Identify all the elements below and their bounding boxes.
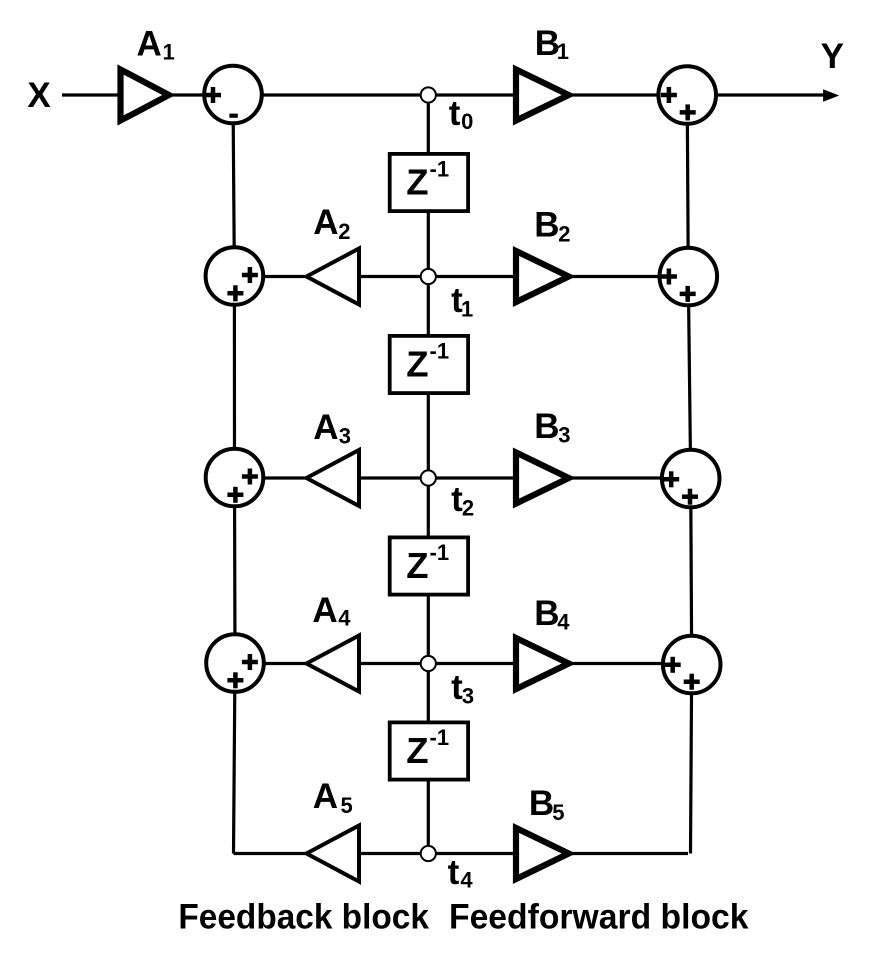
label A5 [313,777,353,818]
svg-text:0: 0 [461,109,473,134]
svg-text:B: B [529,784,554,823]
svg-text:Feedback block: Feedback block [178,897,429,937]
label B1 [535,24,569,64]
summing junction S7 [662,450,720,508]
summing junction S8 [663,636,721,694]
label A2 [313,203,350,244]
svg-text:3: 3 [462,684,474,709]
svg-text:1: 1 [461,297,473,322]
svg-text:2: 2 [338,219,350,244]
svg-text:1: 1 [557,39,569,64]
svg-text:A: A [313,203,338,242]
label t2 [451,480,474,521]
wire row3 S3 to A3 to node t2 to B3 to S7 [234,476,689,479]
svg-text:B: B [534,594,559,633]
wire X input to amplifier A1 [62,93,122,96]
amplifier B1 [516,70,569,121]
amplifier B5 [516,828,569,879]
node t0 [421,87,436,102]
summing junction S3 [206,449,264,507]
sign plus plus S8 [665,657,700,690]
node t4 [421,846,436,861]
amplifier A4 [307,636,360,692]
amplifier A5 [307,826,360,882]
svg-text:-1: -1 [430,156,450,181]
summing junction S5 [658,66,716,124]
delay Z2 [390,336,468,393]
summing junction S4 [206,634,264,692]
label B3 [534,407,570,448]
svg-text:-1: -1 [430,725,450,750]
node t3 [421,656,436,671]
label t0 [449,94,474,134]
label t3 [451,668,474,709]
svg-text:A: A [312,591,337,630]
svg-text:3: 3 [339,423,351,448]
wire center delay chain column [427,95,430,854]
wire left feedback column [233,95,235,854]
amplifier A3 [307,450,360,506]
svg-text:A: A [313,408,338,447]
svg-text:2: 2 [462,496,474,521]
label A4 [312,591,351,631]
amplifier B3 [516,453,569,504]
svg-text:t: t [448,853,460,892]
sign plus plus S4 [227,654,258,688]
summing junction S1 [204,66,262,124]
svg-text:t: t [449,94,461,133]
wire right feedforward column [687,95,692,854]
svg-text:A: A [313,777,338,816]
svg-text:B: B [534,206,559,245]
svg-text:X: X [27,76,51,115]
svg-text:Z: Z [406,161,428,202]
svg-text:2: 2 [558,222,570,247]
summing junction S6 [660,248,718,306]
wire row4 S4 to A4 to node t3 to B4 to S8 [234,662,689,665]
sign plus plus S3 [227,469,258,503]
label B5 [529,784,565,825]
label B4 [534,594,570,635]
label t1 [451,281,473,322]
svg-text:5: 5 [341,793,353,818]
svg-text:Y: Y [821,37,844,76]
sign plus S1 [205,87,221,103]
svg-text:4: 4 [338,606,351,631]
wire row1 A1 to summing junction S1 to node t0 to amplifier B1 to summing junction S5 [168,93,688,96]
wire row5 feedback corner to A5 to node t4 to B5 to feedforward corner [234,852,689,855]
svg-text:B: B [534,407,559,446]
sign plus plus S6 [661,269,696,302]
amplifier A1 [121,70,169,121]
svg-text:4: 4 [460,868,473,893]
node t1 [421,269,436,284]
wire output arrow to Y [688,93,831,96]
label t4 [448,853,474,892]
svg-text:A: A [137,25,162,64]
svg-text:Z: Z [406,545,428,586]
svg-text:-1: -1 [430,338,450,363]
amplifier A2 [307,249,360,305]
svg-text:Feedforward block: Feedforward block [449,897,749,937]
svg-text:3: 3 [558,423,570,448]
delay Z3 [390,537,468,594]
sign plus plus S5 [661,87,696,120]
label B2 [534,206,570,247]
svg-text:Z: Z [406,730,428,771]
sign plus plus S7 [663,471,698,504]
summing junction S2 [206,247,264,305]
wire row2 S2 to A2 to node t1 to B2 to S6 [234,275,689,278]
label A3 [313,408,351,448]
sign minus S1 [229,114,237,118]
delay Z1 [390,154,468,211]
svg-text:4: 4 [557,610,570,635]
svg-text:-1: -1 [430,540,450,565]
svg-text:5: 5 [552,800,564,825]
amplifier B4 [516,638,569,689]
node t2 [421,470,436,485]
svg-text:Z: Z [406,343,428,384]
label A1 [137,25,175,65]
amplifier B2 [516,251,569,302]
delay Z4 [390,722,468,779]
sign plus plus S2 [227,267,258,301]
svg-text:1: 1 [163,40,175,65]
